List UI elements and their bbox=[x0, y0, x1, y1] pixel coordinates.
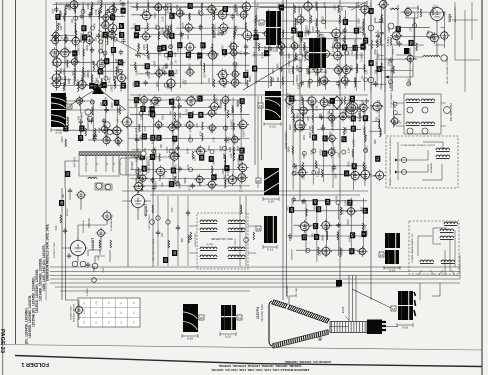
test point TP15 bbox=[118, 59, 123, 65]
tube V104 bbox=[99, 124, 109, 134]
svg-text:10%: 10% bbox=[302, 135, 306, 141]
svg-text:47K: 47K bbox=[154, 24, 158, 29]
svg-text:470K: 470K bbox=[117, 140, 121, 146]
capacitor C20 bbox=[244, 44, 248, 50]
svg-text:1MEG: 1MEG bbox=[213, 51, 217, 59]
coil L18 bbox=[212, 24, 214, 33]
tube V26 bbox=[174, 8, 185, 19]
CRT socket pins bbox=[382, 322, 386, 330]
pin circle P20 bbox=[298, 68, 302, 72]
capacitor C27 bbox=[306, 29, 310, 35]
pointer diagonal 1 bbox=[98, 30, 146, 56]
svg-text:6-45: 6-45 bbox=[226, 170, 230, 176]
photo tag 12 bbox=[237, 315, 242, 320]
svg-text:1K: 1K bbox=[60, 36, 64, 39]
yoke winding bbox=[441, 260, 455, 264]
test point TP83 bbox=[396, 26, 401, 32]
svg-text:255V: 255V bbox=[330, 166, 334, 172]
tube V112 bbox=[344, 100, 360, 116]
coil L20 bbox=[255, 17, 257, 26]
pin circle P46 bbox=[389, 80, 393, 84]
svg-text:28: 28 bbox=[200, 156, 204, 160]
schematic right border bbox=[481, 0, 483, 375]
svg-text:PAGE 23: PAGE 23 bbox=[0, 329, 5, 354]
tube V19 bbox=[116, 72, 128, 84]
pin circle P56 bbox=[166, 220, 170, 224]
svg-text:100: 100 bbox=[76, 115, 80, 120]
svg-text:1500: 1500 bbox=[198, 24, 202, 30]
svg-text:100: 100 bbox=[159, 144, 163, 149]
coil L21 bbox=[270, 77, 272, 86]
bottom thin rule bbox=[0, 345, 482, 351]
resistor R39 bbox=[282, 77, 284, 85]
wire bbox=[69, 88, 126, 110]
CRT grid leads bbox=[330, 326, 398, 328]
svg-text:68K: 68K bbox=[181, 237, 184, 242]
tube V87 bbox=[327, 133, 337, 143]
wire bbox=[56, 19, 58, 91]
svg-text:270: 270 bbox=[321, 249, 325, 254]
pin circle P66 bbox=[401, 169, 406, 174]
capacitor C31 bbox=[342, 28, 346, 34]
capacitor C45 bbox=[319, 114, 323, 120]
waveform photo W8 bbox=[183, 304, 198, 332]
wire bbox=[171, 8, 173, 70]
wire bbox=[291, 249, 293, 259]
wire bbox=[253, 47, 323, 49]
tube V67 bbox=[172, 120, 182, 130]
resistor R86 bbox=[352, 149, 354, 157]
wire bbox=[132, 7, 215, 9]
tube V94 bbox=[390, 30, 402, 42]
svg-text:100: 100 bbox=[91, 60, 95, 65]
capacitor C14 bbox=[164, 63, 168, 69]
photo tag 20 bbox=[256, 178, 261, 183]
wire bbox=[319, 100, 364, 102]
yoke winding bbox=[228, 220, 245, 224]
test point TP24 bbox=[169, 33, 174, 39]
wire bbox=[293, 224, 313, 226]
svg-text:16: 16 bbox=[392, 307, 396, 311]
test point TP76 bbox=[341, 136, 346, 142]
tube V71 bbox=[194, 174, 205, 185]
pin circle P54 bbox=[244, 238, 249, 243]
tube V30 bbox=[206, 3, 217, 14]
tube V109 bbox=[374, 169, 386, 181]
resistor R109 bbox=[152, 205, 154, 213]
tube V24 bbox=[162, 29, 173, 40]
test point TP20 bbox=[145, 63, 150, 69]
capacitor C68 bbox=[68, 188, 72, 194]
svg-text:12: 12 bbox=[238, 316, 242, 320]
svg-text:47: 47 bbox=[120, 24, 124, 28]
svg-text:22K: 22K bbox=[191, 95, 195, 100]
test point TP33 bbox=[222, 49, 227, 55]
waveform photo W4 bbox=[265, 91, 281, 120]
wire bbox=[309, 8, 311, 31]
resistor R56 bbox=[363, 27, 365, 35]
svg-text:1500: 1500 bbox=[112, 7, 116, 13]
test point TP91 bbox=[314, 234, 319, 240]
black TP near neck bbox=[336, 280, 342, 287]
waveform photo W1 bbox=[51, 93, 66, 109]
svg-text:SPEAKER CONNECTIONS VIEW ON 21: SPEAKER CONNECTIONS VIEW ON 21 IN. MODEL… bbox=[389, 137, 392, 187]
svg-text:255V: 255V bbox=[224, 27, 228, 33]
wire bbox=[332, 140, 334, 188]
svg-text:47K: 47K bbox=[134, 169, 138, 174]
svg-text:22K: 22K bbox=[379, 85, 383, 90]
wire bbox=[56, 2, 58, 12]
wire bbox=[223, 7, 247, 9]
wire bbox=[92, 100, 94, 141]
svg-text:820: 820 bbox=[231, 108, 235, 113]
wire bbox=[332, 100, 334, 131]
svg-text:1500: 1500 bbox=[157, 66, 161, 72]
tube V34 bbox=[216, 68, 228, 80]
pin circle P4 bbox=[81, 9, 85, 13]
svg-text:270: 270 bbox=[143, 126, 147, 131]
svg-text:.047: .047 bbox=[332, 146, 336, 152]
pin circle P7 bbox=[99, 40, 103, 44]
svg-text:.005: .005 bbox=[106, 139, 110, 145]
svg-text:3900: 3900 bbox=[120, 72, 124, 78]
yoke winding bbox=[228, 255, 245, 259]
pin circle P51 bbox=[393, 102, 397, 106]
capacitor C2 bbox=[65, 3, 69, 9]
svg-text:270: 270 bbox=[191, 110, 195, 115]
svg-text:22K: 22K bbox=[203, 73, 207, 78]
wire bbox=[254, 31, 363, 33]
svg-text:20: 20 bbox=[200, 316, 204, 320]
svg-text:6: 6 bbox=[361, 46, 365, 48]
svg-text:820: 820 bbox=[116, 108, 120, 113]
tube V33 bbox=[218, 22, 230, 34]
capacitor C30 bbox=[336, 81, 340, 87]
resistor R94 bbox=[393, 66, 395, 74]
wire bbox=[309, 39, 311, 89]
wire bbox=[293, 235, 366, 237]
capacitor C56 bbox=[79, 119, 83, 125]
svg-text:4.7K: 4.7K bbox=[315, 23, 319, 29]
yoke winding bbox=[440, 229, 454, 233]
svg-text:4.7K: 4.7K bbox=[187, 185, 191, 191]
waveform photo W7 bbox=[385, 233, 400, 248]
test point TP58 bbox=[172, 136, 177, 142]
tube V105 bbox=[101, 135, 112, 146]
wire bbox=[441, 26, 445, 28]
resistor R49 bbox=[318, 34, 320, 42]
wire bbox=[279, 6, 281, 89]
wire bbox=[338, 230, 340, 256]
audio output transformer box bbox=[404, 94, 441, 134]
svg-text:.001: .001 bbox=[62, 193, 65, 198]
coil L2 bbox=[64, 76, 66, 85]
pin circle P74 bbox=[92, 263, 98, 269]
pin circle P58 bbox=[96, 183, 102, 189]
pin circle P45 bbox=[413, 24, 417, 28]
capacitor C44 bbox=[300, 126, 304, 132]
test point TP78 bbox=[350, 96, 355, 102]
svg-text:4.7K: 4.7K bbox=[199, 131, 203, 137]
pin circle P36 bbox=[223, 126, 227, 130]
capacitor C6 bbox=[96, 33, 100, 39]
svg-text:68K: 68K bbox=[276, 63, 280, 68]
wire bbox=[293, 100, 311, 102]
svg-text:330K: 330K bbox=[180, 33, 184, 39]
wire bbox=[296, 249, 360, 251]
resistor R114 bbox=[371, 40, 373, 49]
capacitor C36 bbox=[171, 104, 175, 110]
svg-text:.01: .01 bbox=[173, 60, 177, 64]
yoke winding bbox=[440, 236, 454, 240]
wire bbox=[240, 98, 242, 166]
svg-text:5-12: 5-12 bbox=[225, 334, 231, 338]
resistor R80 bbox=[312, 125, 314, 133]
capacitor C39 bbox=[175, 153, 179, 159]
svg-text:10K: 10K bbox=[245, 69, 249, 74]
pin circle P64 bbox=[444, 107, 451, 114]
wire bbox=[189, 226, 256, 253]
wire bbox=[368, 2, 385, 92]
tube V78 bbox=[226, 174, 238, 186]
photo W10 white edge marks bbox=[414, 292, 416, 316]
svg-text:BOOSTED B+: BOOSTED B+ bbox=[83, 219, 85, 233]
lead line to photo W10 bbox=[352, 289, 391, 308]
test point TP8 bbox=[104, 58, 109, 64]
test point TP43 bbox=[354, 28, 359, 34]
svg-text:255V: 255V bbox=[139, 135, 143, 141]
pin circle P15 bbox=[164, 53, 168, 57]
wire bbox=[54, 70, 123, 72]
capacitor C62 bbox=[379, 30, 383, 36]
svg-text:56: 56 bbox=[82, 26, 86, 30]
test point TP81 bbox=[352, 163, 357, 169]
test point TP88 bbox=[313, 199, 318, 205]
svg-text:10K: 10K bbox=[99, 102, 103, 107]
wire bbox=[344, 10, 346, 89]
coil L24 bbox=[356, 64, 358, 73]
svg-text:6-45: 6-45 bbox=[228, 146, 232, 152]
resistor R10 bbox=[83, 49, 85, 57]
svg-text:20: 20 bbox=[257, 179, 261, 183]
svg-text:470K: 470K bbox=[302, 152, 306, 158]
resistor R76 bbox=[302, 97, 304, 105]
yoke winding bbox=[228, 228, 245, 232]
svg-text:3.3K: 3.3K bbox=[62, 88, 66, 94]
wire bbox=[54, 61, 94, 63]
test point TP61 bbox=[188, 112, 193, 118]
resistor R79 bbox=[312, 104, 314, 112]
svg-text:135V: 135V bbox=[171, 98, 175, 104]
yoke winding bbox=[200, 220, 217, 224]
resistor R5 bbox=[63, 83, 65, 91]
svg-text:SPEAKER: SPEAKER bbox=[430, 162, 433, 173]
resistor R51 bbox=[319, 52, 321, 60]
svg-text:37: 37 bbox=[315, 235, 319, 239]
test point TP9 bbox=[102, 82, 107, 88]
wire vertical run bbox=[65, 188, 67, 300]
pin circle P17 bbox=[169, 45, 173, 49]
pin circle P49 bbox=[336, 201, 340, 205]
pin circle P57 bbox=[92, 278, 97, 283]
test point TP47 bbox=[134, 97, 139, 103]
svg-text:EMERSON MODELS 1434, 1435, 143: EMERSON MODELS 1434, 1435, 1436, bbox=[46, 224, 50, 281]
svg-text:135V: 135V bbox=[356, 18, 360, 24]
tube V12 bbox=[84, 34, 95, 45]
tube V44 bbox=[276, 41, 286, 51]
tuner pin circle bbox=[141, 151, 146, 156]
tube V11 bbox=[76, 78, 88, 90]
capacitor C50 bbox=[373, 81, 377, 87]
test point TP105 bbox=[59, 200, 64, 206]
svg-text:TUNER: TUNER bbox=[130, 161, 134, 170]
svg-text:39: 39 bbox=[352, 127, 356, 131]
svg-text:12K: 12K bbox=[229, 153, 233, 158]
yoke winding bbox=[436, 148, 450, 152]
svg-text:4.5MC TRAP: 4.5MC TRAP bbox=[288, 53, 291, 67]
svg-text:.01: .01 bbox=[306, 1, 310, 5]
wire bbox=[88, 237, 110, 272]
capacitor C13 bbox=[144, 80, 148, 86]
svg-text:135V: 135V bbox=[353, 77, 357, 83]
wire bbox=[369, 130, 381, 132]
resistor R99 bbox=[362, 223, 364, 231]
waveform label 5-20 bbox=[263, 197, 279, 203]
svg-text:12K: 12K bbox=[79, 130, 83, 135]
yoke winding bbox=[406, 99, 420, 103]
resistor R104 bbox=[119, 106, 121, 114]
test point TP32 bbox=[223, 6, 228, 12]
resistor R55 bbox=[344, 35, 346, 43]
tube V42 bbox=[241, 29, 254, 42]
tube V35 bbox=[218, 76, 229, 87]
svg-text:.01: .01 bbox=[326, 203, 330, 207]
tuner divider wire bbox=[105, 156, 107, 172]
test point TP64 bbox=[199, 155, 204, 161]
wire vertical run bbox=[355, 275, 357, 321]
wire bbox=[62, 283, 120, 300]
svg-text:35: 35 bbox=[164, 258, 168, 262]
svg-text:4.7K: 4.7K bbox=[335, 63, 339, 69]
svg-text:330K: 330K bbox=[335, 195, 339, 201]
svg-text:1MEG: 1MEG bbox=[146, 0, 150, 7]
yoke winding bbox=[200, 255, 217, 259]
svg-text:2.2MEG: 2.2MEG bbox=[154, 150, 158, 160]
svg-text:100: 100 bbox=[325, 226, 329, 231]
tube V29 bbox=[185, 67, 195, 77]
svg-text:.0047: .0047 bbox=[221, 7, 225, 14]
test point TP102 bbox=[375, 156, 380, 162]
test point TP22 bbox=[161, 45, 166, 51]
power box wiring bbox=[418, 228, 455, 275]
svg-text:28: 28 bbox=[60, 201, 64, 205]
svg-text:100: 100 bbox=[350, 49, 354, 54]
deflection yoke box bbox=[197, 213, 248, 269]
wire bbox=[153, 103, 155, 184]
svg-text:1438, 1439, 1440 (Ch. 120347B,: 1438, 1439, 1440 (Ch. 120347B, bbox=[42, 244, 46, 291]
wire bbox=[291, 109, 363, 111]
wire bbox=[99, 7, 101, 78]
CRT glass band bottom bbox=[272, 330, 328, 348]
test point TP26 bbox=[168, 70, 173, 76]
wire bbox=[134, 34, 226, 36]
B+ bus wire 4 bbox=[50, 278, 460, 280]
pin circle P10 bbox=[104, 76, 108, 80]
svg-text:255V: 255V bbox=[302, 173, 306, 179]
capacitor C40 bbox=[178, 166, 182, 172]
svg-text:57: 57 bbox=[170, 14, 174, 18]
resistor R92 bbox=[376, 40, 378, 48]
test point TP55 bbox=[150, 154, 155, 160]
svg-text:22: 22 bbox=[143, 135, 147, 139]
capacitor C17 bbox=[199, 24, 203, 30]
tube V76 bbox=[220, 95, 231, 106]
svg-text:.01: .01 bbox=[115, 118, 119, 122]
svg-text:6AW8A: 6AW8A bbox=[358, 110, 362, 122]
svg-text:100: 100 bbox=[185, 27, 189, 32]
pin circle P75 bbox=[85, 109, 91, 115]
test point TP90 bbox=[313, 223, 318, 229]
CRT yoke band top-left bbox=[272, 300, 288, 308]
test point TP108 bbox=[369, 60, 374, 66]
svg-text:3.3K: 3.3K bbox=[237, 164, 241, 170]
wire bbox=[244, 2, 246, 85]
tube V53 bbox=[333, 41, 343, 51]
capacitor C1 bbox=[54, 7, 58, 13]
tube V39 bbox=[229, 77, 240, 88]
wire bbox=[56, 129, 121, 131]
svg-text:10%: 10% bbox=[166, 82, 170, 88]
pin circle P9 bbox=[103, 51, 107, 55]
svg-text:10K: 10K bbox=[168, 111, 172, 116]
wire bbox=[255, 81, 294, 83]
wire bbox=[331, 47, 366, 49]
svg-text:HORIZ OUTPUT: HORIZ OUTPUT bbox=[286, 131, 288, 149]
tube V88 bbox=[326, 147, 336, 157]
wire bbox=[316, 199, 318, 262]
schematic left border bbox=[15, 0, 17, 344]
tube V55 bbox=[333, 64, 344, 75]
svg-text:10%: 10% bbox=[213, 32, 217, 38]
svg-text:PICTURE TUBE: PICTURE TUBE bbox=[261, 304, 264, 322]
wire bbox=[129, 99, 244, 101]
capacitor C64 bbox=[176, 225, 180, 231]
svg-text:4.7K: 4.7K bbox=[102, 83, 106, 89]
svg-text:TO 2ND ANODE: TO 2ND ANODE bbox=[110, 216, 113, 232]
wire bbox=[131, 14, 167, 16]
wire vertical run bbox=[254, 0, 256, 165]
wire bbox=[376, 66, 386, 68]
svg-text:330K: 330K bbox=[142, 44, 146, 50]
svg-text:25: 25 bbox=[313, 135, 317, 139]
wire bbox=[130, 156, 173, 158]
yoke winding bbox=[421, 122, 435, 126]
svg-text:.047: .047 bbox=[164, 24, 168, 30]
svg-text:470K: 470K bbox=[189, 126, 193, 132]
resistor R61 bbox=[174, 176, 176, 184]
svg-text:6-45: 6-45 bbox=[223, 82, 227, 88]
CRT anode lead bbox=[289, 296, 297, 305]
capacitor C42 bbox=[224, 137, 228, 143]
svg-text:45: 45 bbox=[313, 200, 317, 204]
wire bbox=[88, 80, 110, 140]
tube V23 bbox=[154, 68, 165, 79]
svg-text:.047: .047 bbox=[347, 114, 351, 120]
test point TP27 bbox=[177, 42, 182, 48]
pin circle P6 bbox=[88, 32, 92, 36]
tube V48 bbox=[303, 50, 315, 62]
pin circle P76 bbox=[87, 116, 92, 121]
